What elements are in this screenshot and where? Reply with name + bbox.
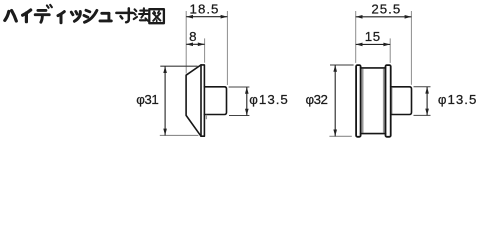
svg-text:φ32: φ32 [306,92,328,107]
svg-text:φ31: φ31 [136,92,158,107]
title ハイディッシュ寸法図 (hand-drawn strokes) [5,5,164,23]
svg-text:φ13.5: φ13.5 [438,92,478,107]
dim 25.5 line with arrows [356,15,412,19]
left flange [356,65,361,137]
part outline: cone body [186,65,226,136]
dim 18.5 line with arrows [186,15,227,19]
char シ [84,10,97,22]
cone (small left face + slants) [186,65,201,136]
gray shading line inside center, left [362,69,364,133]
svg-text:15: 15 [365,29,381,44]
dim 25.5 extension line right (gray) [410,11,412,85]
char 図 [149,9,164,23]
dim 15 extension line right (gray) [389,38,391,63]
char ッ [71,12,80,22]
dim phi13.5 (left) line with arrows [245,87,249,116]
shaft [391,87,412,115]
svg-text:φ13.5: φ13.5 [249,92,289,107]
char ィ [58,12,64,23]
dim phi13.5 (right) extension top [414,86,431,88]
svg-text:18.5: 18.5 [190,2,220,17]
dim phi32 line with arrows [333,65,337,136]
dim phi13.5 (left) extension bottom [229,115,249,117]
dim phi31 extension bottom [160,134,199,136]
dim phi32 extension top [330,64,354,66]
dim phi31 extension top [160,65,197,67]
char ハ [5,11,16,22]
dim 18.5 extension line left (gray) [185,11,187,74]
gray shading at shaft root [391,88,393,114]
center hub bottom edge [361,133,386,135]
dim phi13.5 (right) line with arrows [425,87,429,116]
char 法 [134,8,150,21]
svg-text:25.5: 25.5 [371,2,401,17]
dim 8 extension line right (gray) [204,38,206,62]
dim 25.5 extension line left (gray) [355,11,357,63]
dim phi13.5 (right) extension bottom [414,114,431,116]
gray step at rim/shaft bottom junction [205,115,207,119]
center hub top edge [361,67,386,69]
dim phi32 extension bottom [329,135,351,137]
face/rim band [201,65,204,136]
right flange [386,65,391,137]
gray shading line inside center, right [383,69,385,133]
dim 18.5 extension line right (gray) [226,11,228,85]
char イ [23,10,31,22]
dim phi13.5 (left) extension top [229,86,250,88]
shaft (boss) [204,87,226,115]
dim 8 line with arrows [186,43,204,47]
char デ [35,5,52,22]
char ュ [100,13,111,21]
dim 15 line with arrows [356,43,391,47]
dim phi31 line with arrows [163,66,167,135]
char 寸 [116,8,132,22]
svg-text:8: 8 [189,29,196,44]
